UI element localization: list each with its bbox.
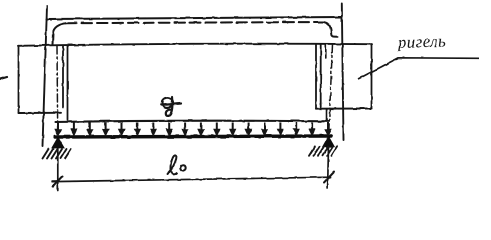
svg-text:ригель: ригель <box>396 31 446 52</box>
